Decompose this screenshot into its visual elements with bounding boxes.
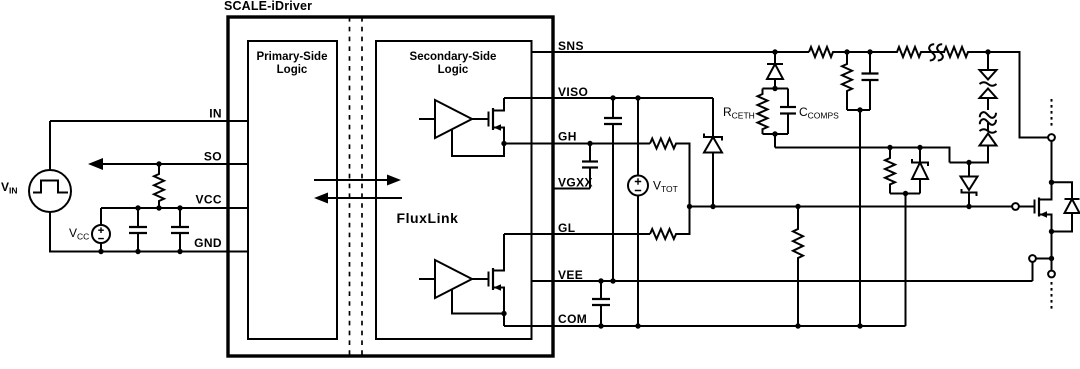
wire GH [504, 143, 650, 145]
transistor power MOSFET [1019, 182, 1052, 231]
wire clamp chain to gate network [775, 148, 950, 163]
resistor gate low RGL [650, 207, 690, 240]
IC outline box [228, 17, 553, 356]
wire VEE rail to kelvin terminal [1032, 262, 1034, 281]
node SNS filter R tap [844, 49, 849, 54]
svg-text:COM: COM [558, 312, 587, 326]
resistor SO to VCC [154, 164, 164, 208]
wire COM [504, 325, 906, 327]
node SO-resistor junction [156, 161, 161, 166]
node resistor-VCC junction [156, 205, 161, 210]
node SNS diode tap [772, 49, 777, 54]
diode body power MOSFET [1052, 182, 1080, 231]
wire bottom driver feedback [452, 290, 504, 314]
node drain [1049, 180, 1054, 185]
svg-text:RCETH: RCETH [723, 105, 755, 121]
capacitor SNS filter [847, 49, 879, 112]
resistor gate-COM [793, 204, 803, 329]
isolation barrier dashed line 2 [361, 17, 363, 356]
resistor SNS filter [842, 52, 852, 110]
secondary-side logic box [376, 41, 532, 339]
wire GL [504, 233, 650, 235]
svg-text:IN: IN [209, 107, 222, 121]
capacitor C1 VCC-GND [129, 205, 147, 254]
node V_CC on GND [98, 249, 103, 254]
terminal kelvin open circle [1029, 255, 1036, 262]
capacitor VEE-COM [592, 278, 610, 328]
svg-text:Logic: Logic [438, 64, 469, 76]
svg-text:CCOMPS: CCOMPS [799, 105, 839, 121]
isolation barrier dashed line 1 [349, 17, 351, 356]
source V_CC [92, 208, 110, 252]
capacitor VGXX-GH [582, 141, 598, 189]
wire VEE [532, 280, 1033, 282]
svg-text:VEE: VEE [558, 268, 583, 282]
wire VGXX stub [553, 188, 590, 190]
capacitor VISO-VEE [604, 95, 622, 283]
diode TVS clamp lower [950, 123, 997, 163]
node top driver source on GH [501, 141, 506, 146]
diode zener clamp VISO-gate [704, 98, 722, 209]
svg-text:VCC: VCC [195, 193, 222, 207]
capacitor C2 VCC-GND [171, 205, 189, 254]
terminal drain open circle [1048, 134, 1055, 141]
wire gate line [690, 206, 1013, 208]
svg-text:GND: GND [194, 236, 222, 250]
resistor gate high RGH [650, 139, 657, 149]
FluxLink arrow right [314, 175, 401, 186]
wire drain terminal to MOSFET [1051, 141, 1053, 182]
svg-text:Primary-Side: Primary-Side [257, 51, 328, 63]
node clamp zener tap [966, 160, 971, 165]
wire break symbol clamp chain [980, 112, 996, 125]
wire zener network bottom [890, 191, 920, 326]
resistor SNS R2 [870, 47, 928, 57]
dotted bus continuation top [1051, 99, 1053, 129]
resistor SNS R1 [809, 47, 847, 57]
wire V_IN top [49, 121, 51, 170]
diode SNS sense [767, 52, 783, 89]
terminal gate open circle [1012, 203, 1019, 210]
driver U-top buffer triangle [419, 100, 489, 138]
svg-text:SNS: SNS [558, 39, 584, 53]
node source [1049, 229, 1054, 234]
node SNS clamp tap [985, 49, 990, 54]
node bottom driver feedback junction [501, 311, 506, 316]
svg-text:GH: GH [558, 130, 577, 144]
wire top driver feedback [452, 130, 504, 156]
source V_IN [29, 170, 71, 212]
driver U-bottom buffer triangle [419, 260, 489, 298]
wire bottom driver source to COM [503, 314, 505, 327]
svg-text:GL: GL [558, 221, 575, 235]
svg-text:FluxLink: FluxLink [397, 210, 459, 226]
svg-text:SCALE-iDriver: SCALE-iDriver [224, 0, 312, 13]
wire SNS to drain terminal [988, 52, 1048, 138]
source V_TOT VISO-COM [628, 95, 648, 328]
svg-text:VISO: VISO [558, 85, 588, 99]
svg-text:VGXX: VGXX [558, 176, 593, 190]
diode zener gate-emitter [912, 145, 928, 194]
node gate resistor junction [687, 204, 692, 209]
wire source down [1051, 232, 1053, 271]
wire VISO [504, 97, 713, 99]
wire V_IN bottom to GND [50, 212, 248, 252]
network R_CETH parallel C_COMPS [758, 86, 797, 148]
svg-text:VTOT: VTOT [653, 179, 678, 195]
dotted bus continuation bottom [1051, 282, 1053, 312]
primary-side logic box [248, 41, 337, 339]
node SNS filter on COM [857, 323, 862, 328]
svg-text:VIN: VIN [1, 180, 18, 196]
svg-text:VCC: VCC [69, 226, 89, 242]
wire SNS filter to COM [859, 110, 861, 326]
wire break symbol SNS [926, 44, 945, 60]
diode TVS bidirectional clamp [980, 52, 997, 110]
svg-text:Secondary-Side: Secondary-Side [410, 51, 497, 63]
node kelvin source [1049, 256, 1054, 261]
FluxLink arrow left [314, 193, 402, 204]
resistor SNS R3 [944, 47, 988, 57]
resistor gate-emitter [885, 145, 895, 194]
svg-text:Logic: Logic [277, 64, 308, 76]
transistor top driver MOSFET [489, 98, 505, 144]
wire kelvin terminal to source [1036, 258, 1052, 260]
wire VCC pin [101, 207, 248, 209]
wire SO with arrow [88, 158, 248, 170]
wire SNS [532, 51, 810, 53]
svg-text:SO: SO [204, 150, 222, 164]
terminal source open circle [1048, 271, 1055, 278]
transistor bottom driver MOSFET [489, 234, 505, 314]
wire IN pin [50, 120, 248, 122]
diode zener clamp to gate [961, 163, 978, 210]
